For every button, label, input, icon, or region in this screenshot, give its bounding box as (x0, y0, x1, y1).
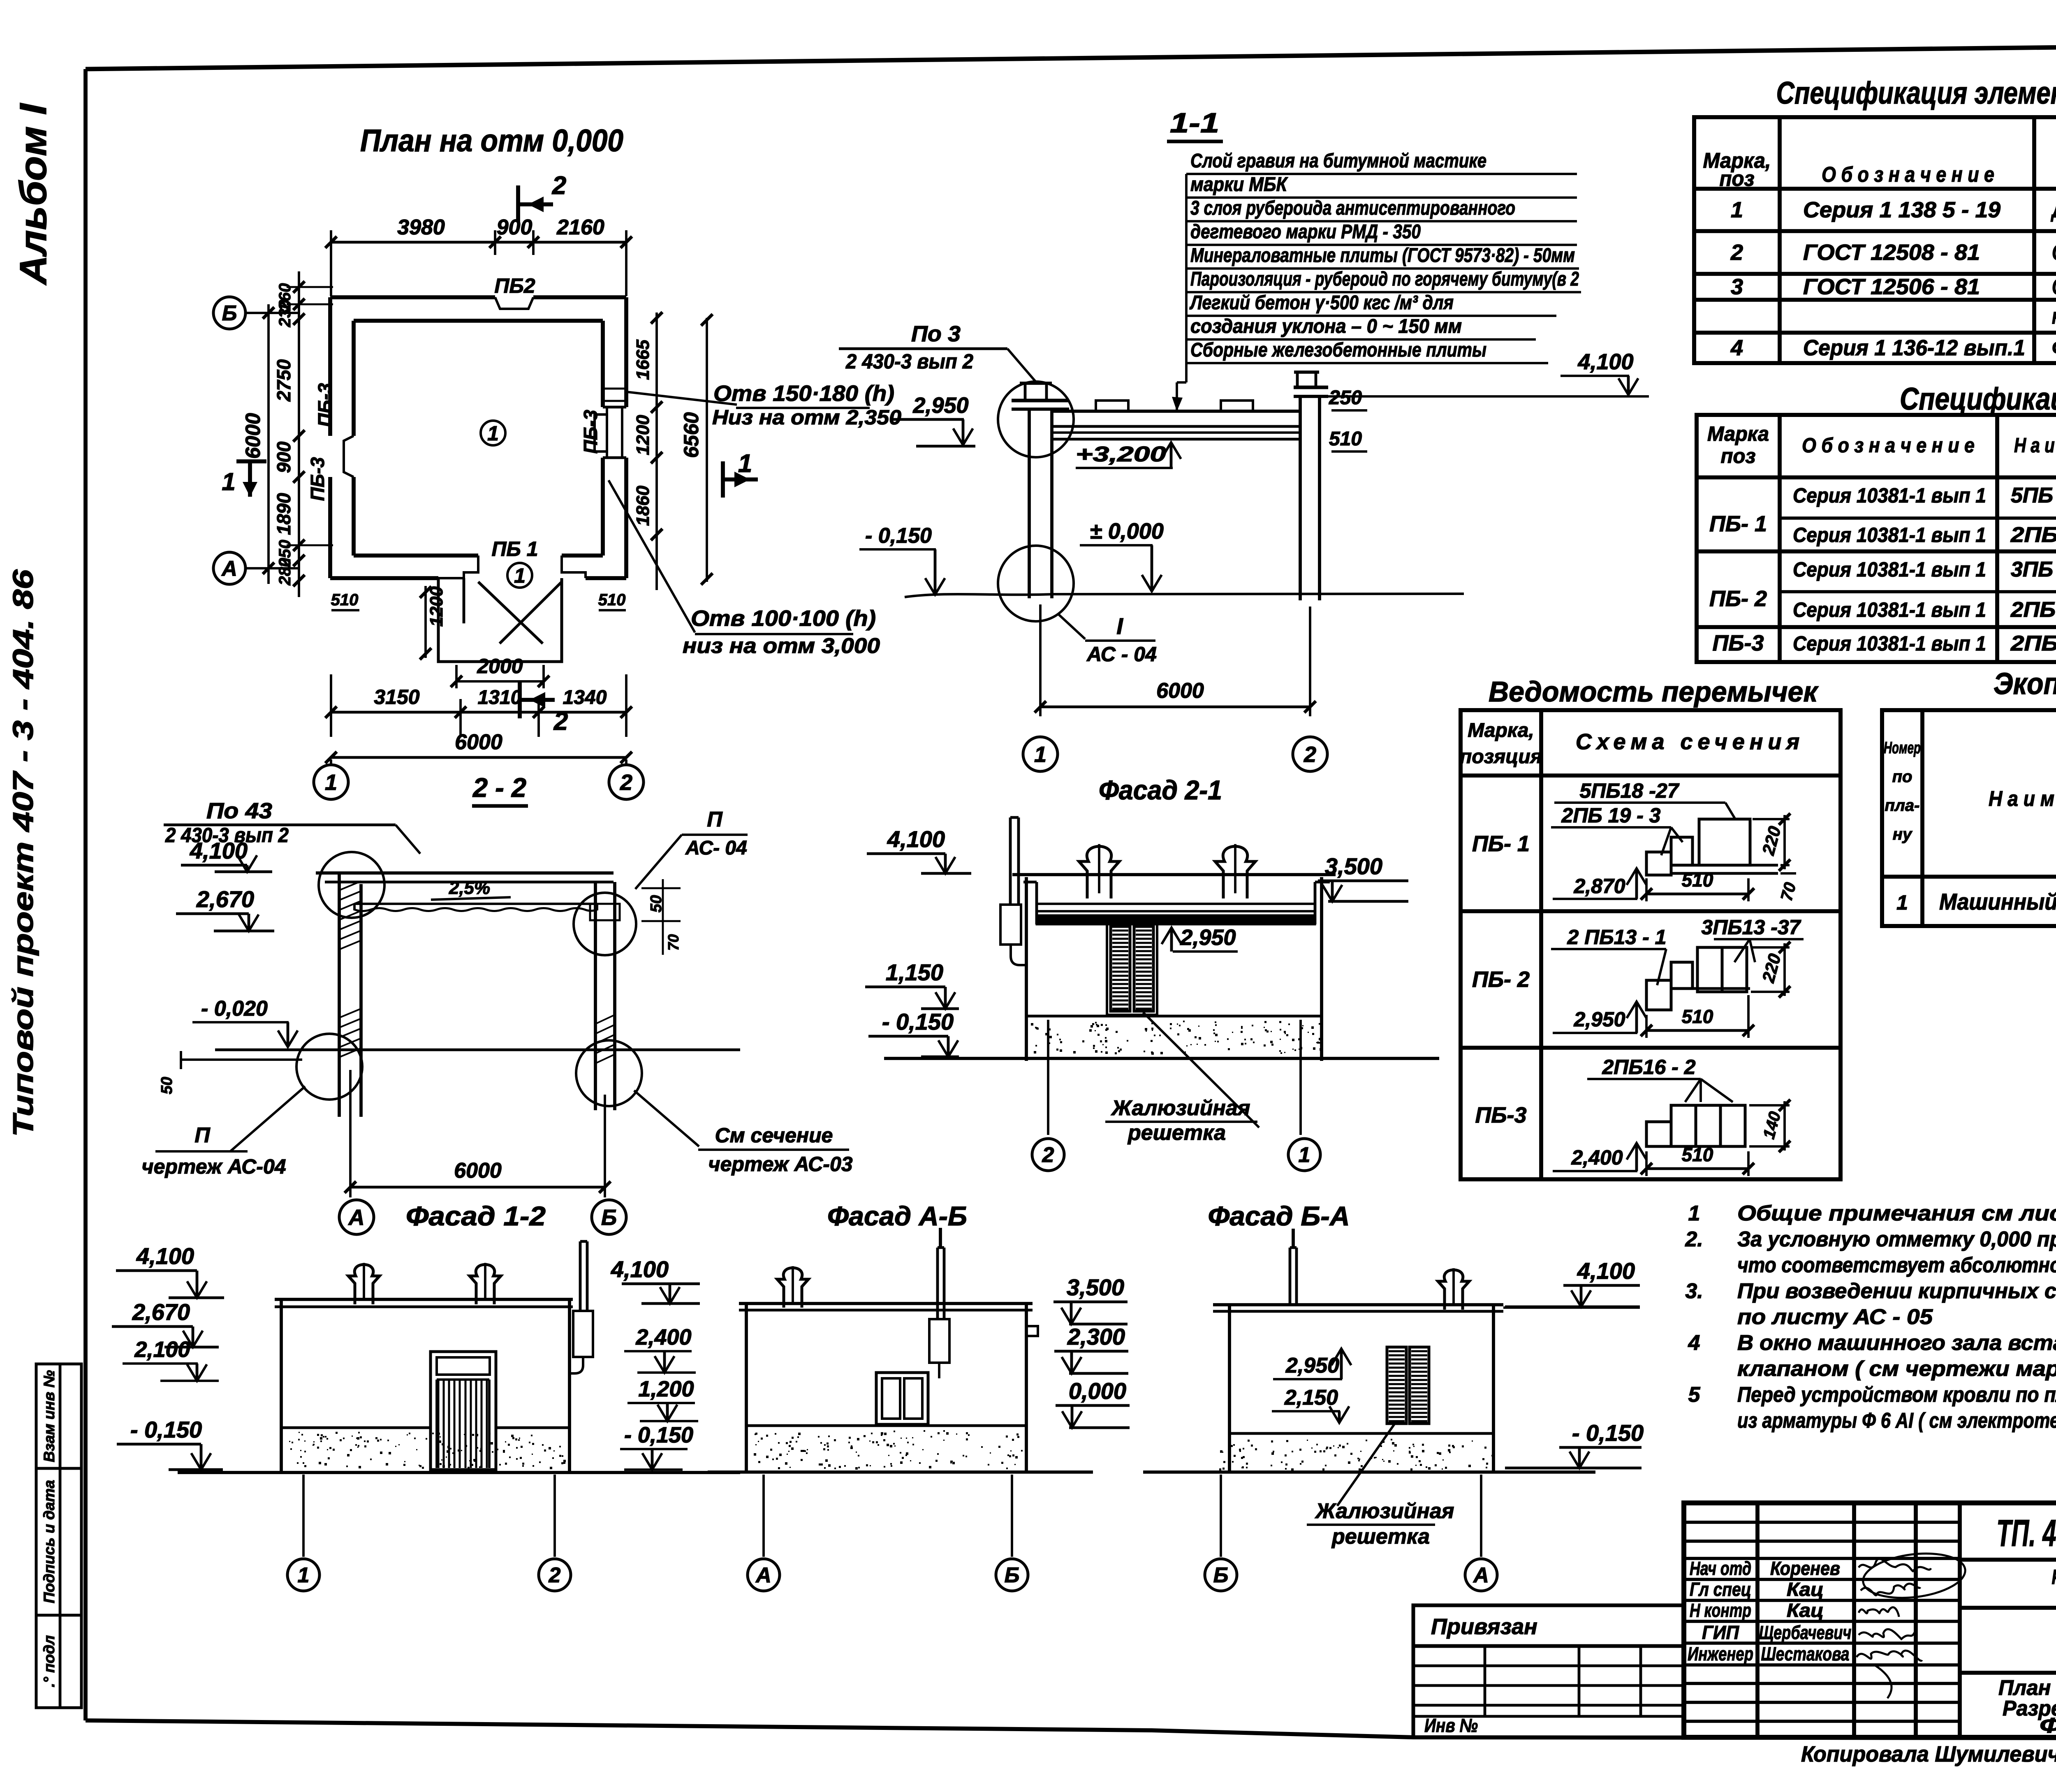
svg-text:Фасад А-Б: Фасад А-Б (827, 1201, 967, 1231)
svg-text:Кац: Кац (1787, 1579, 1824, 1600)
svg-text:1: 1 (222, 468, 235, 495)
svg-text:Н контр: Н контр (1690, 1600, 1751, 1621)
svg-text:2.: 2. (1685, 1227, 1703, 1251)
svg-text:клапаном ( см чертежи марки: клапаном ( см чертежи марки ОВ) (1737, 1357, 2056, 1381)
svg-text:900: 900 (497, 215, 533, 239)
svg-text:Щербачевич: Щербачевич (1759, 1622, 1852, 1643)
svg-text:6000: 6000 (241, 413, 264, 458)
svg-text:510: 510 (1682, 869, 1713, 891)
svg-text:- 0,020: - 0,020 (201, 997, 268, 1021)
svg-text:2ПБ19 - 3: 2ПБ19 - 3 (2010, 523, 2056, 547)
svg-text:2,5%: 2,5% (449, 878, 490, 898)
svg-text:В окно машинного зала: В окно машинного зала вставляются жалюзи… (1737, 1331, 2056, 1355)
svg-text:чертеж АС-04: чертеж АС-04 (141, 1155, 286, 1178)
svg-text:Фасады: Фасады (2040, 1714, 2056, 1738)
svg-text:Спецификация элементов запол: Спецификация элементов заполнения проемо… (1776, 76, 2056, 111)
svg-text:Фасад 2-1: Фасад 2-1 (1099, 775, 1222, 805)
svg-text:См сечение: См сечение (715, 1124, 833, 1147)
svg-text:6000: 6000 (1156, 679, 1204, 703)
svg-text:Б: Б (1005, 1563, 1020, 1587)
svg-text:А: А (1473, 1563, 1489, 1587)
svg-text:Типовой проект 407 - 3 -: Типовой проект 407 - 3 - 404. 86 (7, 569, 39, 1137)
svg-text:ПБ-3: ПБ-3 (307, 457, 328, 501)
svg-text:2,300: 2,300 (1067, 1324, 1125, 1350)
svg-text:ПБ-3: ПБ-3 (1712, 631, 1764, 655)
svg-text:П: П (707, 808, 723, 831)
svg-text:2: 2 (549, 1563, 561, 1587)
svg-text:Гл спец: Гл спец (1690, 1579, 1751, 1600)
svg-text:1665: 1665 (633, 340, 653, 380)
svg-text:решетка: решетка (1127, 1121, 1226, 1145)
svg-text:Серия 1 136-12 вып.1: Серия 1 136-12 вып.1 (1803, 336, 2025, 360)
svg-text:Шестакова: Шестакова (1761, 1643, 1850, 1665)
svg-text:- 0,150: - 0,150 (624, 1423, 693, 1447)
svg-text:Оконный блок с жалюзий-: Оконный блок с жалюзий- (2052, 275, 2056, 299)
svg-text:1: 1 (738, 449, 752, 478)
svg-text:Спецификация перемычек: Спецификация перемычек (1900, 382, 2056, 417)
svg-text:Жалюзийная: Жалюзийная (1315, 1499, 1454, 1523)
svg-text:510: 510 (1682, 1144, 1713, 1165)
svg-text:А: А (755, 1563, 771, 1587)
svg-text:пла-: пла- (1885, 796, 1920, 815)
svg-text:3.: 3. (1685, 1279, 1703, 1303)
svg-text:марки МБК: марки МБК (1190, 174, 1288, 196)
svg-text:280: 280 (276, 558, 294, 586)
svg-text:2: 2 (1304, 742, 1316, 767)
svg-text:2000: 2000 (477, 655, 523, 678)
svg-text:ГОСТ 12508 - 81: ГОСТ 12508 - 81 (1803, 240, 1980, 265)
svg-text:Номер: Номер (1884, 739, 1921, 757)
svg-text:Оконный блок СВД 12-12: Оконный блок СВД 12-12 (2052, 240, 2056, 265)
svg-text:- 0,150: - 0,150 (865, 524, 932, 548)
svg-text:О б о з н а ч е н и е: О б о з н а ч е н и е (1802, 434, 1975, 457)
svg-text:2,950: 2,950 (1180, 925, 1236, 950)
svg-text:3980: 3980 (397, 215, 445, 239)
svg-text:510: 510 (1682, 1006, 1713, 1027)
svg-text:2750: 2750 (273, 359, 294, 402)
svg-text:ПБ- 1: ПБ- 1 (1709, 512, 1767, 536)
svg-text:900: 900 (273, 441, 294, 473)
svg-text:ПБ2: ПБ2 (494, 274, 535, 297)
svg-text:1310: 1310 (478, 687, 522, 708)
svg-text:2ПБ 13 - 1: 2ПБ 13 - 1 (2010, 598, 2056, 622)
svg-text:ПБ-3: ПБ-3 (580, 410, 601, 454)
svg-text:Серия 1 138 5 - 19: Серия 1 138 5 - 19 (1803, 198, 2000, 222)
svg-text:позяция: позяция (1460, 746, 1542, 768)
svg-text:Марка,: Марка, (1468, 720, 1534, 741)
svg-text:2,670: 2,670 (132, 1299, 190, 1325)
svg-text:2,950: 2,950 (1573, 1008, 1625, 1031)
svg-text:ПБ-3: ПБ-3 (314, 383, 336, 427)
svg-text:2,400: 2,400 (635, 1325, 691, 1350)
svg-text:Серия 10381-1 вып 1: Серия 10381-1 вып 1 (1793, 558, 1986, 581)
svg-text:Резервная дизельная электро: Резервная дизельная электростанция (2052, 1565, 2056, 1588)
svg-text:ной решеткой СВ9 - 18Ж: ной решеткой СВ9 - 18Ж (2052, 304, 2056, 329)
svg-text:1890: 1890 (273, 493, 294, 535)
svg-text:1: 1 (1299, 1143, 1310, 1167)
svg-text:Слой гравия на битумной масти: Слой гравия на битумной мастике (1190, 150, 1486, 172)
svg-text:5: 5 (1688, 1383, 1701, 1407)
svg-text:1: 1 (487, 422, 499, 445)
svg-text:Серия 10381-1 вып 1: Серия 10381-1 вып 1 (1793, 632, 1986, 655)
svg-text:Общие примечания см лист АС: Общие примечания см лист АС - 01 (1737, 1202, 2056, 1225)
svg-text:3,500: 3,500 (1325, 853, 1382, 879)
svg-text:Нач отд: Нач отд (1690, 1558, 1751, 1579)
svg-text:250: 250 (1329, 387, 1362, 409)
svg-text:Кац: Кац (1787, 1600, 1824, 1621)
svg-text:4,100: 4,100 (887, 826, 945, 852)
svg-text:4: 4 (1688, 1331, 1700, 1355)
svg-text:Перед устройством кровли по: Перед устройством кровли по плитам уложи… (1737, 1383, 2056, 1407)
svg-text:2 - 2: 2 - 2 (472, 772, 526, 803)
svg-text:3150: 3150 (374, 685, 419, 708)
svg-text:чертеж АС-03: чертеж АС-03 (708, 1153, 852, 1176)
svg-text:Жалюзийная: Жалюзийная (1111, 1096, 1250, 1120)
svg-text:50: 50 (158, 1077, 176, 1094)
svg-text:ПБ- 2: ПБ- 2 (1709, 586, 1767, 611)
svg-text:ПБ- 1: ПБ- 1 (1472, 831, 1530, 856)
svg-text:Подпись и дата: Подпись и дата (41, 1480, 58, 1603)
svg-text:- 0,150: - 0,150 (882, 1009, 954, 1035)
svg-text:2,100: 2,100 (134, 1337, 190, 1362)
svg-text:1200: 1200 (633, 415, 653, 455)
svg-text:± 0,000: ± 0,000 (1090, 519, 1164, 544)
svg-text:По 43: По 43 (206, 799, 272, 823)
svg-text:2: 2 (620, 770, 632, 795)
svg-text:+3,200: +3,200 (1076, 442, 1166, 466)
svg-text:ну: ну (1893, 825, 1912, 843)
svg-text:ГОСТ 12506 - 81: ГОСТ 12506 - 81 (1803, 275, 1980, 299)
svg-text:1: 1 (1034, 742, 1047, 767)
svg-text:ТП. 407-3- 404. 86: ТП. 407-3- 404. 86 (1996, 1512, 2056, 1554)
svg-text:2,870: 2,870 (1573, 875, 1625, 898)
svg-text:За условную отметку 0,000 п: За условную отметку 0,000 принят уровень… (1737, 1227, 2056, 1251)
svg-text:Серия 10381-1 вып 1: Серия 10381-1 вып 1 (1793, 484, 1986, 507)
svg-text:АС- 04: АС- 04 (685, 837, 747, 859)
svg-text:ПБ-3: ПБ-3 (1475, 1103, 1526, 1128)
svg-text:из арматуры Ф 6 АI ( см э: из арматуры Ф 6 АI ( см электротехническ… (1737, 1409, 2056, 1433)
svg-text:2,950: 2,950 (1285, 1354, 1339, 1378)
svg-text:6000: 6000 (455, 730, 502, 754)
svg-text:Схема сечения: Схема сечения (1576, 729, 1804, 754)
svg-text:поз: поз (1720, 167, 1755, 191)
svg-text:3ПБ 13 -37: 3ПБ 13 -37 (2011, 558, 2056, 581)
svg-text:Ведомость перемычек: Ведомость перемычек (1489, 676, 1819, 708)
svg-text:Легкий бетон γ·500 кгс /м³: Легкий бетон γ·500 кгс /м³ для (1189, 292, 1454, 314)
svg-text:- 0,150: - 0,150 (1572, 1420, 1644, 1446)
svg-text:2160: 2160 (556, 215, 604, 239)
svg-text:Взам инв №: Взам инв № (41, 1370, 58, 1462)
svg-text:Отв 150·180 (h): Отв 150·180 (h) (713, 381, 894, 406)
svg-text:низ на отм 3,000: низ на отм 3,000 (683, 634, 880, 658)
svg-text:5ПБ 18 -27: 5ПБ 18 -27 (2011, 484, 2056, 507)
svg-text:1200: 1200 (426, 586, 447, 627)
svg-text:что соответствует абсолютно: что соответствует абсолютной отметке (1737, 1253, 2056, 1277)
svg-text:Фрамуга ФН06 -15: Фрамуга ФН06 -15 (2052, 336, 2056, 360)
svg-text:1,150: 1,150 (886, 959, 943, 985)
svg-text:О б о з н а ч е н и е: О б о з н а ч е н и е (1822, 163, 1994, 187)
svg-text:2: 2 (1730, 240, 1743, 265)
svg-text:поз: поз (1721, 445, 1756, 468)
svg-text:2: 2 (1042, 1143, 1054, 1167)
svg-text:Фасад 1-2: Фасад 1-2 (406, 1201, 546, 1231)
svg-text:Коренев: Коренев (1770, 1558, 1840, 1579)
svg-text:П: П (194, 1123, 211, 1147)
svg-text:4,100: 4,100 (1577, 1258, 1635, 1284)
svg-text:5ПБ18 -27: 5ПБ18 -27 (1580, 779, 1680, 802)
svg-text:ГИП: ГИП (1702, 1622, 1739, 1643)
svg-text:решетка: решетка (1331, 1525, 1430, 1549)
svg-text:1: 1 (514, 564, 526, 587)
svg-text:Б: Б (222, 301, 237, 325)
svg-text:1: 1 (1896, 891, 1908, 914)
svg-text:Н а и м с н о в а н и е: Н а и м с н о в а н и е (2014, 434, 2056, 457)
svg-text:4,100: 4,100 (1577, 350, 1633, 374)
svg-text:70: 70 (665, 934, 682, 951)
svg-text:дегтевого марки РМД - 350: дегтевого марки РМД - 350 (1190, 221, 1421, 243)
svg-text:Б: Б (1213, 1563, 1229, 1587)
svg-text:1340: 1340 (563, 687, 607, 708)
svg-text:3 слоя рубероида антисептир: 3 слоя рубероида антисептированного (1190, 197, 1515, 219)
svg-text:Экопликация помещений: Экопликация помещений (1993, 667, 2056, 701)
svg-text:Пароизоляция - рубероид по го: Пароизоляция - рубероид по горячему биту… (1190, 269, 1579, 290)
svg-text:Сборные железобетонные плит: Сборные железобетонные плиты (1190, 339, 1486, 361)
svg-text:Н а и м е н о в а н и е: Н а и м е н о в а н и е (1989, 787, 2056, 811)
svg-text:2ПБ 19 - 3: 2ПБ 19 - 3 (1561, 804, 1661, 827)
svg-text:1,200: 1,200 (638, 1377, 694, 1401)
svg-text:ПБ- 2: ПБ- 2 (1472, 967, 1530, 992)
svg-text:510: 510 (1329, 428, 1362, 450)
svg-text:2ПБ16 - 2: 2ПБ16 - 2 (2010, 632, 2056, 655)
svg-text:Копировала Шумилевич: Копировала Шумилевич (1801, 1742, 2056, 1767)
svg-text:6000: 6000 (454, 1159, 502, 1183)
svg-text:Фасад Б-А: Фасад Б-А (1208, 1201, 1350, 1231)
svg-text:510: 510 (598, 591, 626, 609)
svg-text:1860: 1860 (633, 486, 653, 526)
svg-text:Отв 100·100 (h): Отв 100·100 (h) (691, 606, 876, 631)
svg-text:2,400: 2,400 (1571, 1146, 1623, 1169)
svg-text:2ПБ16 - 2: 2ПБ16 - 2 (1602, 1056, 1695, 1079)
svg-text:Альбом I: Альбом I (12, 102, 54, 285)
svg-text:Инженер: Инженер (1688, 1643, 1753, 1665)
svg-text:Марка: Марка (1707, 422, 1769, 445)
svg-text:3ПБ13 -37: 3ПБ13 -37 (1702, 916, 1801, 939)
svg-text:6560: 6560 (680, 412, 703, 458)
svg-text:I: I (1116, 613, 1123, 639)
svg-text:2,670: 2,670 (196, 886, 254, 912)
svg-text:4: 4 (1730, 336, 1743, 360)
svg-text:3: 3 (1731, 275, 1743, 299)
svg-text:АС - 04: АС - 04 (1086, 643, 1157, 666)
svg-text:1: 1 (325, 770, 337, 795)
svg-text:1: 1 (298, 1563, 310, 1587)
svg-text:ПБ 1: ПБ 1 (491, 537, 538, 560)
svg-text:0,000: 0,000 (1069, 1378, 1126, 1404)
svg-text:1-1: 1-1 (1170, 107, 1219, 139)
svg-text:А: А (348, 1205, 365, 1230)
svg-text:1: 1 (1688, 1202, 1700, 1225)
svg-text:Низ на отм 2,350: Низ на отм 2,350 (712, 406, 901, 429)
svg-text:По 3: По 3 (911, 322, 961, 346)
svg-text:по: по (1892, 768, 1912, 786)
svg-text:Машинный зал: Машинный зал (1939, 889, 2056, 915)
svg-text:3,500: 3,500 (1067, 1274, 1124, 1300)
svg-text:Б: Б (601, 1205, 617, 1230)
svg-text:Серия 10381-1 вып 1: Серия 10381-1 вып 1 (1793, 523, 1986, 546)
svg-text:2,950: 2,950 (912, 393, 968, 418)
svg-text:Привязан: Привязан (1431, 1614, 1537, 1639)
svg-text:- 0,150: - 0,150 (130, 1417, 202, 1442)
svg-text:510: 510 (331, 591, 359, 609)
svg-text:4,100: 4,100 (136, 1243, 194, 1269)
svg-text:Инв №: Инв № (1424, 1715, 1478, 1736)
svg-text:2 430-3 вып 2: 2 430-3 вып 2 (845, 350, 973, 373)
svg-text:План на отм 0,000: План на отм 0,000 (360, 123, 623, 158)
svg-text:2: 2 (552, 171, 566, 200)
svg-text:2 ПБ13 - 1: 2 ПБ13 - 1 (1567, 926, 1667, 949)
svg-text:А: А (221, 557, 237, 581)
svg-text:Серия 10381-1 вып 1: Серия 10381-1 вып 1 (1793, 598, 1986, 621)
svg-text:.° подл: .° подл (41, 1635, 58, 1687)
svg-text:Минераловатные плиты (ГОСТ 95: Минераловатные плиты (ГОСТ 9573·82) - 50… (1190, 245, 1575, 266)
svg-text:При возведении кирпичных ст: При возведении кирпичных стен устроить о… (1737, 1279, 2056, 1303)
svg-text:по листу АС - 05: по листу АС - 05 (1737, 1305, 1933, 1329)
svg-text:создания уклона – 0: создания уклона – 0 ~ 150 мм (1190, 316, 1462, 338)
svg-text:1: 1 (1731, 198, 1743, 222)
svg-text:4,100: 4,100 (611, 1256, 669, 1282)
